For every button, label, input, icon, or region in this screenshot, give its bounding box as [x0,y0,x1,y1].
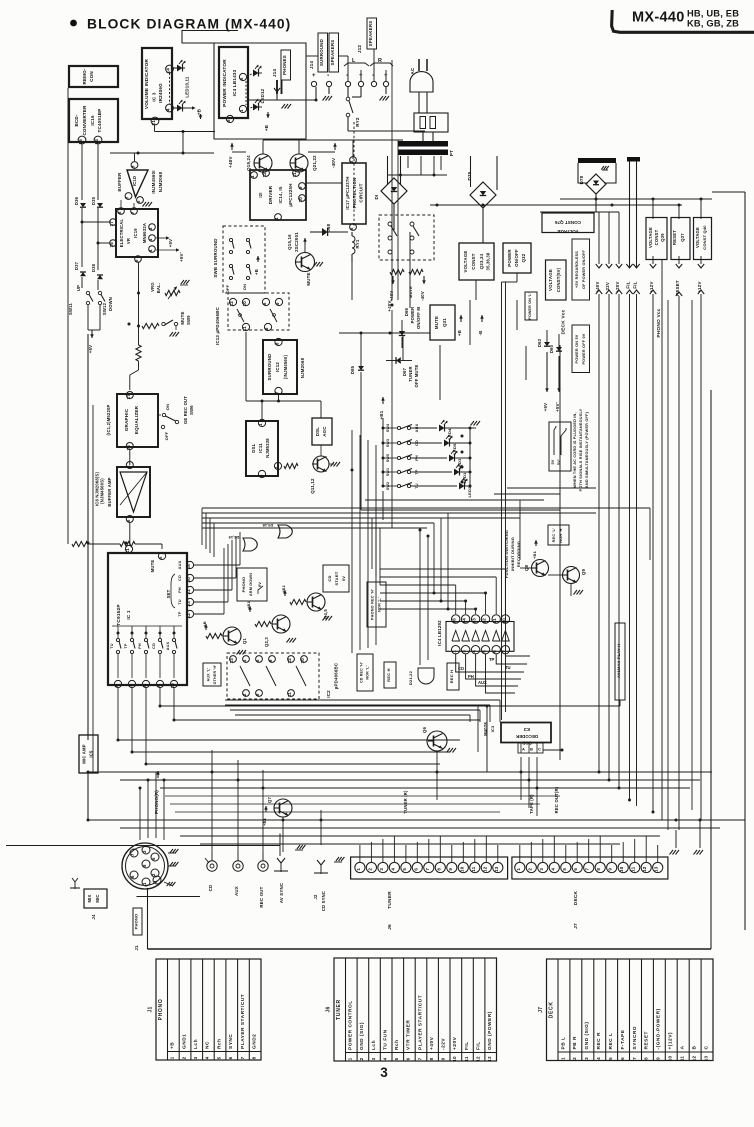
label PHONO(R) with arrow [154,771,160,814]
vertical wires center field [246,60,428,665]
box PHONO ARM DOWN 0V [237,568,267,601]
svg-text:GND (POWER): GND (POWER) [487,1011,493,1050]
box CD START 0V [323,565,349,592]
svg-text:J2: J2 [313,894,318,900]
svg-text:4: 4 [596,1057,601,1060]
connector J6 pin row [351,836,508,879]
svg-text:TUNER (R): TUNER (R) [403,790,408,814]
svg-text:GND2: GND2 [252,1034,258,1049]
wires power on-off region [392,300,547,400]
svg-text:4: 4 [148,249,153,252]
svg-text:2: 2 [572,1057,577,1060]
VR4 BAL potentiometer [150,280,189,299]
svg-text:+B: +B [264,124,269,131]
box AV1MAX PLAY H [486,623,626,708]
box CD REC 'H' NOR 'L' [357,654,373,691]
svg-text:13: 13 [487,1056,492,1062]
svg-text:PHONO: PHONO [158,999,164,1021]
svg-text:VOLTAGE: VOLTAGE [463,251,468,273]
svg-text:MUTE: MUTE [408,286,413,298]
svg-text:14: 14 [462,618,467,624]
svg-text:NOR 'L': NOR 'L' [378,597,382,612]
svg-text:µPD4066BC: µPD4066BC [334,662,339,689]
svg-text:11: 11 [492,618,497,624]
svg-text:13: 13 [654,866,659,872]
svg-text:PLAYER START/CUT: PLAYER START/CUT [240,994,246,1049]
page number 3 [380,1065,388,1080]
svg-text:10: 10 [452,1056,457,1062]
svg-text:2: 2 [274,466,279,469]
box GRAPHIC EQUALIZER IC1,2 M5220P [106,392,158,451]
box TC9152P IC1 system control [108,553,187,685]
svg-text:D35: D35 [91,196,96,205]
svg-text:7: 7 [130,853,135,856]
wires from TC9152P bottom pins down [117,688,176,766]
svg-text:PHONO Vcc: PHONO Vcc [656,308,662,337]
svg-text:CONST: CONST [654,229,659,245]
power transformer PT secondary bar [398,150,454,157]
svg-text:+5V REGARDLESS: +5V REGARDLESS [575,251,579,288]
svg-text:12: 12 [691,1056,696,1062]
svg-text:MUTE: MUTE [180,311,185,324]
svg-text:LED2: LED2 [467,486,472,498]
box POWER INDICATOR IC4 LB1433 [219,47,248,118]
transistor Q1 [202,621,247,654]
dashed relay contact box RY1 contacts [379,210,434,260]
wire electrical VR rails [81,144,135,290]
svg-text:INHIBIT DURING: INHIBIT DURING [510,537,515,571]
svg-text:9: 9 [268,659,273,662]
svg-text:1: 1 [560,1057,565,1060]
svg-text:6: 6 [413,868,418,871]
svg-text:MUTE: MUTE [434,316,439,329]
svg-text:TC9152P: TC9152P [116,604,122,626]
svg-text:VOLUME INDICATOR: VOLUME INDICATOR [144,59,149,110]
box VOLTAGE CONST Q33,34 35,36,38 [459,243,494,280]
label J12 SPEAKERS boxed [357,18,377,53]
svg-text:PH: PH [468,674,474,679]
svg-text:D78: D78 [579,175,584,184]
svg-text:LED10,11: LED10,11 [185,76,190,97]
svg-text:CIRCUIT: CIRCUIT [359,183,364,202]
svg-text:2: 2 [242,693,247,696]
svg-text:10: 10 [242,301,247,307]
svg-text:10: 10 [298,197,303,203]
svg-text:REC L: REC L [608,1033,614,1050]
bus drops toward IC4 region [372,513,450,611]
svg-text:4: 4 [550,868,555,871]
svg-text:RY2: RY2 [355,117,360,127]
svg-text:+: + [312,73,316,79]
svg-text:OFF MUTE: OFF MUTE [414,364,419,387]
svg-text:AV SYNC: AV SYNC [279,882,284,903]
svg-text:NJM2068: NJM2068 [300,357,305,378]
svg-text:+5V: +5V [88,345,93,354]
svg-text:9: 9 [275,302,280,305]
svg-text:POWER CONTROL: POWER CONTROL [348,1000,354,1050]
svg-text:CON: CON [89,71,94,82]
svg-text:3: 3 [148,227,153,230]
box DSL AGC [312,418,332,445]
svg-text:13: 13 [229,658,234,664]
svg-text:+40V: +40V [389,291,394,302]
svg-text:M4028: M4028 [483,722,488,736]
svg-text:2: 2 [359,1057,364,1060]
svg-text:9: 9 [441,1057,446,1060]
svg-text:+B1: +B1 [246,600,251,609]
svg-text:AUX: AUX [166,641,170,650]
svg-text:3: 3 [193,1056,198,1059]
svg-text:23: 23 [186,601,191,607]
svg-text:TUNER: TUNER [408,366,413,381]
svg-text:J7: J7 [538,1007,544,1013]
grounds right of J7 [670,820,704,855]
svg-text:4: 4 [153,880,158,883]
svg-text:9: 9 [448,868,453,871]
connector label J14 PHONES [272,50,291,80]
wire graphic equalizer chain [68,88,162,549]
top rail to buffer [110,152,214,155]
svg-text:5: 5 [134,259,139,262]
dashed box SWB SURROUND switches [213,226,265,293]
svg-text:14: 14 [94,139,99,145]
svg-text:5: 5 [216,1056,221,1059]
label J1 PHONO boxed [133,870,200,951]
svg-text:RY1: RY1 [355,239,360,248]
svg-text:AUX: AUX [234,886,239,896]
svg-text:+20V: +20V [452,1036,458,1050]
label J6 TUNER [387,891,393,930]
svg-text:J1: J1 [134,945,139,951]
LED indicator rows [411,420,472,498]
svg-text:GRAPHIC: GRAPHIC [124,408,129,431]
svg-text:10: 10 [619,866,624,872]
jack REC OUT [258,852,268,908]
svg-text:D5,18: D5,18 [262,523,273,528]
wire loop around power indicator block [182,31,306,140]
svg-text:SURROUND: SURROUND [319,39,324,66]
svg-text:Q15,16: Q15,16 [287,234,292,250]
svg-text:18: 18 [186,564,191,570]
pin 8 of IC4 indicator [226,115,234,122]
pin 5 of TC9152P [150,552,166,572]
svg-text:D75: D75 [467,171,472,180]
IC4 LB1292 lower pin row [452,646,510,654]
supply rail chevron RESET [675,264,682,296]
svg-text:BLOCK DIAGRAM (MX-440): BLOCK DIAGRAM (MX-440) [87,17,291,32]
OR gate D6,19 [228,535,257,551]
svg-text:4: 4 [274,217,279,220]
svg-text:2SC2001: 2SC2001 [294,232,299,252]
svg-text:IC 3: IC 3 [152,92,157,101]
svg-text:+B: +B [457,330,462,336]
box VOLTAGE CONST Q39 [646,218,667,260]
svg-text:22: 22 [186,613,191,619]
svg-text:INJM4560I: INJM4560I [151,170,156,193]
svg-text:REC H: REC H [386,668,391,681]
svg-text:HB, UB, EB: HB, UB, EB [687,9,739,19]
svg-text:J4: J4 [91,914,96,920]
svg-text:7: 7 [275,391,280,394]
svg-text:+B1: +B1 [281,584,286,593]
svg-text:AUX: AUX [178,560,182,569]
supply rail chevron +12V phono [697,264,704,294]
svg-text:RESET: RESET [644,1031,650,1050]
svg-text:15: 15 [126,445,131,451]
svg-text:AND SIMULTANEOUSLY (POWER OFF): AND SIMULTANEOUSLY (POWER OFF) [585,411,589,488]
svg-text:NOR 'L': NOR 'L' [366,665,370,679]
TC9152P right side pins AUX CD PH TU TP [166,560,194,618]
svg-text:DSL: DSL [251,443,256,452]
svg-text:GND (SIG): GND (SIG) [359,1022,365,1050]
svg-text:6: 6 [620,1057,625,1060]
svg-text:+B1: +B1 [532,550,537,559]
box ELECTRICAL VR IC19 MN6632A [109,208,158,263]
svg-text:A: A [680,1046,686,1050]
svg-text:CONST(5V): CONST(5V) [556,267,561,292]
svg-text:IC11: IC11 [258,443,263,453]
svg-text:4: 4 [383,1057,388,1060]
svg-text:FIL: FIL [633,281,638,288]
box MIX MIC J4 [70,878,107,920]
svg-text:+B: +B [254,269,259,275]
svg-text:IC4 LB1292: IC4 LB1292 [437,620,442,646]
box BUFFER AMP IC8 [95,462,151,523]
transistor Q21,22 [290,154,317,172]
jack J2 CD SYNC [313,857,344,911]
svg-text:Lch: Lch [193,1039,199,1049]
svg-text:Q21,22: Q21,22 [312,155,317,171]
transistor Q9 [562,567,586,595]
svg-text:2: 2 [181,1056,186,1059]
svg-text:CD: CD [327,575,332,581]
svg-text:DECK: DECK [573,890,579,905]
supply rail chevron +20V [615,264,622,294]
svg-text:REC 'L': REC 'L' [552,528,556,543]
svg-text:F-TAPE: F-TAPE [620,1029,626,1049]
svg-text:6: 6 [136,200,141,203]
svg-text:SURROUND: SURROUND [267,354,272,381]
svg-text:B: B [691,1046,697,1050]
wires below surround ic12 [246,332,321,419]
title bullet and heading BLOCK DIAGRAM (MX-440) [70,17,291,32]
DIN connector J1 phono socket [122,843,178,889]
svg-text:D66: D66 [404,307,409,316]
diodes D63 D60 [537,330,562,412]
svg-text:12: 12 [287,658,292,664]
svg-text:SYNC: SYNC [228,1034,234,1049]
svg-text:UP: UP [76,285,81,291]
jack AV SYNC [274,845,305,903]
svg-text:6: 6 [492,650,497,653]
power transformer PT primary bar [398,141,448,147]
mute resistors below relay contacts [389,269,426,301]
svg-text:NJM2068: NJM2068 [158,171,163,192]
supply rail chevron FIL 2 [633,264,640,294]
svg-text:MX-440: MX-440 [632,10,685,26]
svg-text:8: 8 [429,1057,434,1060]
svg-text:REC H: REC H [449,670,454,683]
pin 11 of TC9152P [125,545,133,553]
pin 6 of IC4 indicator [239,73,247,80]
svg-text:MIC: MIC [95,894,100,902]
svg-text:21: 21 [151,120,156,126]
svg-text:FIL: FIL [475,1041,481,1050]
svg-text:12: 12 [642,866,647,872]
svg-text:D38: D38 [91,263,96,272]
svg-text:POWER ON 'L': POWER ON 'L' [528,292,532,319]
svg-text:0V: 0V [341,576,346,581]
label TAPE (R) [529,794,534,814]
svg-text:A: A [522,747,525,752]
svg-text:+5V': +5V' [179,252,184,262]
svg-text:POTH SIGNALS RISE INSTANTANEOU: POTH SIGNALS RISE INSTANTANEOUSLY [579,408,583,491]
svg-text:DSL: DSL [315,427,320,436]
supply rail chevron FIL 1 [626,264,633,294]
svg-text:+5V': +5V' [555,402,560,412]
svg-text:7: 7 [240,1056,245,1059]
svg-text:2: 2 [527,868,532,871]
LED12 diode pair [247,65,265,111]
svg-text:SYNCRO: SYNCRO [632,1026,638,1050]
svg-text:3: 3 [462,650,467,653]
label +40V near D66 [387,300,392,311]
svg-text:17: 17 [126,394,131,400]
table J6 TUNER pin assignments [326,958,497,1062]
svg-text:SW6: SW6 [189,405,194,415]
svg-text:SW11: SW11 [68,303,73,315]
wires q8 q9 connections [520,500,571,596]
svg-text:CD: CD [178,575,182,581]
svg-text:11: 11 [680,1056,685,1062]
svg-text:AGC: AGC [322,426,327,437]
svg-text:TP: TP [124,643,128,649]
svg-text:OFF: OFF [225,284,230,293]
svg-text:TU: TU [178,599,182,605]
svg-text:(NJM4560S): (NJM4560S) [100,478,105,504]
svg-text:3: 3 [371,1057,376,1060]
wire top bus to speaker terminals [306,49,386,81]
svg-text:CD: CD [152,643,156,649]
svg-text:D36: D36 [74,196,79,205]
svg-text:PT: PT [449,150,454,156]
box BCD-CONVERTER IC16 TC4051BP [69,99,118,142]
svg-text:5: 5 [151,857,156,860]
waveform box 5V 5V-prime [549,422,571,471]
+B1 arrow above Q8 [532,540,538,559]
svg-text:TU: TU [110,643,114,649]
svg-text:SET: SET [166,589,171,598]
svg-text:9: 9 [608,868,613,871]
svg-text:D85: D85 [350,365,355,374]
svg-text:8: 8 [126,465,131,468]
AND gate D21,22 [408,668,434,685]
svg-text:5V: 5V [551,459,555,464]
svg-text:CD SYNC: CD SYNC [321,891,326,911]
svg-text:8: 8 [436,868,441,871]
svg-text:VTR TIMER: VTR TIMER [406,1020,412,1050]
svg-text:11: 11 [125,548,130,554]
svg-text:Q2,3: Q2,3 [264,637,269,647]
svg-text:CONVERTER: CONVERTER [82,105,87,136]
svg-text:µPC1225H: µPC1225H [288,183,293,206]
svg-text:PLAYER START/CUT: PLAYER START/CUT [417,995,423,1050]
transistor Q19,24 [246,154,272,172]
svg-text:3: 3 [258,474,263,477]
svg-text:C: C [538,747,541,752]
box REC H left [384,662,396,688]
svg-text:8: 8 [596,868,601,871]
svg-text:GE REC OUT: GE REC OUT [183,396,188,424]
svg-text:D63: D63 [537,338,542,347]
svg-text:1: 1 [348,1057,353,1060]
svg-text:7: 7 [585,868,590,871]
svg-text:POWER: POWER [507,249,512,267]
+B arrow at volume indicator [185,106,202,119]
svg-text:+(12V): +(12V) [668,1032,674,1050]
svg-text:1: 1 [516,868,521,871]
svg-text:REC OUT: REC OUT [259,886,264,907]
transistor Q8 [524,560,549,577]
diode D85 [339,332,430,511]
svg-text:11: 11 [287,692,292,698]
+B1 arrow near Q2,3 [246,600,252,612]
svg-text:+B: +B [202,621,207,627]
svg-text:BAL.: BAL. [156,283,161,294]
svg-text:6: 6 [228,1056,233,1059]
label +40V rail [228,143,246,168]
svg-text:D67: D67 [402,367,407,376]
svg-text:OTHER 'H': OTHER 'H' [213,665,217,685]
diodes D37 D38 [74,261,103,279]
svg-text:3: 3 [539,868,544,871]
svg-text:9: 9 [656,1057,661,1060]
svg-text:7: 7 [128,684,133,687]
svg-text:MIX: MIX [87,894,92,902]
svg-text:SW12: SW12 [102,302,107,315]
svg-text:WHEN THE AC CORD IS PLUGGED IN: WHEN THE AC CORD IS PLUGGED IN, [573,412,577,487]
IC4 output fan wires with labels [456,654,530,693]
svg-text:(IC1,2)M5220P: (IC1,2)M5220P [106,404,111,435]
svg-text:12: 12 [475,1056,480,1062]
svg-text:IC3: IC3 [523,727,530,732]
svg-text:PB L: PB L [560,1037,566,1050]
svg-text:OF POWER ON/OFF: OF POWER ON/OFF [582,249,586,289]
svg-text:J14: J14 [309,61,314,70]
svg-text:8: 8 [142,684,147,687]
box DRIVER IC14,15 uPC1225H [250,170,306,221]
label SURROUND SPEAKERS boxed [318,33,339,72]
bus from TC9152P right pins [194,532,240,614]
box REMO-CON [69,66,118,87]
svg-text:REMO-: REMO- [82,68,87,84]
svg-text:6: 6 [114,684,119,687]
svg-text:-40V: -40V [420,291,425,301]
svg-text:D37: D37 [74,261,79,270]
svg-text:SPEAKERS: SPEAKERS [330,40,335,66]
svg-text:POWER OFF 0V: POWER OFF 0V [582,333,586,364]
svg-text:8: 8 [255,693,260,696]
svg-text:15: 15 [78,139,83,145]
right side long vertical rails [560,192,745,930]
svg-text:TUNER: TUNER [336,999,342,1020]
svg-text:Lch: Lch [371,1040,377,1050]
svg-text:OFF: OFF [164,431,169,440]
svg-text:Q11,12: Q11,12 [310,478,315,494]
svg-text:IC3: IC3 [490,725,495,732]
svg-text:+40V: +40V [429,1036,435,1050]
svg-text:FUNCTION SWITCHING: FUNCTION SWITCHING [504,530,509,578]
